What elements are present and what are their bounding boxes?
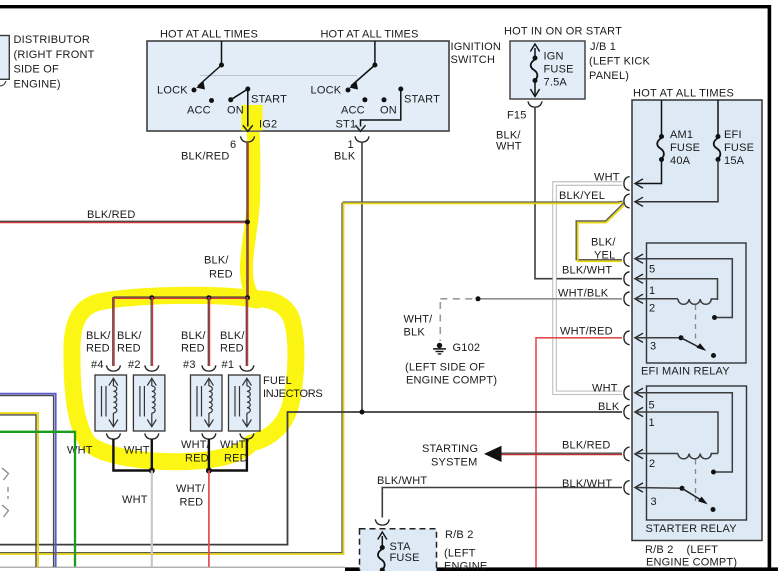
connector WHT (to AM1): [624, 177, 630, 191]
svg-text:J/B 1: J/B 1: [590, 41, 616, 53]
svg-text:ACC: ACC: [187, 105, 211, 117]
junction block (right, HOT AT ALL TIMES): [632, 100, 762, 541]
svg-text:WHT/BLK: WHT/BLK: [558, 288, 609, 300]
fuse box J/B 1: [510, 41, 585, 99]
svg-text:STARTER RELAY: STARTER RELAY: [646, 523, 738, 535]
svg-text:ON: ON: [227, 105, 244, 117]
svg-text:1: 1: [649, 417, 655, 429]
wire BLK/RED to starting system: [422, 440, 622, 469]
svg-text:WHT/: WHT/: [220, 439, 250, 451]
wire BLK/WHT to STA fuse: [377, 475, 622, 518]
junction WHT return: [149, 468, 155, 474]
svg-text:INJECTORS: INJECTORS: [263, 388, 322, 400]
svg-text:FUSE: FUSE: [724, 142, 754, 154]
svg-text:RED: RED: [185, 453, 209, 465]
svg-text:SIDE OF: SIDE OF: [14, 64, 59, 76]
edge continuation marks: [2, 468, 9, 517]
fuse EFI 15A: [635, 100, 754, 206]
connector BLK/WHT pin 5 EFI relay: [624, 272, 630, 286]
svg-text:WHT: WHT: [67, 445, 93, 457]
wire injector 4 return: [113, 439, 151, 471]
svg-text:6: 6: [230, 139, 236, 151]
svg-text:BLK: BLK: [404, 327, 426, 339]
svg-text:WHT/: WHT/: [404, 314, 434, 326]
relay EFI main: [635, 243, 746, 378]
fuel injector #3: [191, 365, 223, 439]
fuse IGN 7.5A: [530, 44, 573, 97]
svg-text:BLK/RED: BLK/RED: [181, 151, 229, 163]
svg-text:2: 2: [649, 303, 655, 315]
svg-text:BLK/: BLK/: [591, 237, 616, 249]
mechanical link line: [200, 75, 357, 77]
svg-text:WHT/RED: WHT/RED: [560, 326, 613, 338]
svg-text:AM1: AM1: [670, 129, 693, 141]
svg-text:HOT IN ON OR START: HOT IN ON OR START: [504, 26, 622, 38]
wire BLK/YEL jumper to EFI relay pin 5: [576, 203, 624, 261]
junction WHT/RED return: [206, 468, 212, 474]
svg-text:LOCK: LOCK: [311, 85, 342, 97]
svg-text:RED: RED: [86, 343, 110, 355]
svg-text:BLK/: BLK/: [204, 255, 229, 267]
svg-text:RED: RED: [180, 497, 204, 509]
wire BLK/RED drop injector 4: [113, 297, 114, 366]
svg-text:FUSE: FUSE: [544, 64, 574, 76]
svg-text:ENGINE: ENGINE: [444, 561, 487, 571]
svg-text:WHT/: WHT/: [176, 483, 206, 495]
svg-text:BLK/: BLK/: [117, 330, 142, 342]
svg-text:DISTRIBUTOR: DISTRIBUTOR: [14, 34, 91, 46]
svg-text:#3: #3: [183, 359, 196, 371]
svg-text:BLK/: BLK/: [181, 330, 206, 342]
wire WHT/RED down: [208, 471, 210, 567]
svg-text:3: 3: [651, 496, 657, 508]
svg-text:G102: G102: [453, 342, 481, 354]
wire injector 2 return: [151, 439, 153, 471]
wire BLK/RED drop injector 2: [151, 297, 152, 366]
svg-text:HOT AT ALL TIMES: HOT AT ALL TIMES: [321, 29, 419, 41]
svg-text:ENGINE COMPT): ENGINE COMPT): [406, 375, 497, 387]
connector F15: [528, 101, 542, 107]
svg-text:3: 3: [650, 341, 656, 353]
fuse box R/B 2 STA (dashed): [360, 529, 437, 571]
svg-text:BLK/WHT: BLK/WHT: [562, 265, 612, 277]
svg-text:(LEFT KICK: (LEFT KICK: [589, 56, 651, 68]
connector BLK/WHT pin 3 starter relay: [624, 481, 630, 495]
svg-text:BLK/: BLK/: [220, 330, 245, 342]
svg-text:ST1: ST1: [336, 119, 357, 131]
svg-text:BLK: BLK: [598, 401, 620, 413]
svg-text:FUSE: FUSE: [390, 552, 420, 564]
wire BLK/RED injector feed bus: [114, 295, 251, 300]
labels BLK/RED over injectors: [86, 330, 245, 371]
ground G102: [405, 342, 497, 387]
connector BLK/RED pin 2 starter relay: [624, 447, 630, 461]
svg-text:PANEL): PANEL): [589, 70, 629, 82]
svg-text:7.5A: 7.5A: [544, 77, 568, 89]
wire BLK/WHT from F15 to relay pin 5: [535, 107, 622, 279]
svg-text:BLK/: BLK/: [86, 330, 111, 342]
fuel injector #4: [95, 365, 127, 439]
labels under injectors: [67, 439, 250, 509]
svg-text:HOT AT ALL TIMES: HOT AT ALL TIMES: [633, 88, 734, 100]
wire BLK/YEL (left lower): [0, 413, 38, 567]
svg-text:(LEFT SIDE OF: (LEFT SIDE OF: [405, 362, 485, 374]
svg-text:FUSE: FUSE: [670, 142, 700, 154]
wire WHT from AM1 fuse to starter relay pin 5: [555, 184, 623, 393]
connector BLK/YEL (upper): [624, 194, 630, 208]
fuel injector #2: [133, 365, 165, 439]
svg-text:START: START: [251, 94, 287, 106]
fuel injector #1: [229, 365, 261, 439]
highlighter over IG2 arrow: [242, 105, 263, 132]
svg-text:F15: F15: [507, 110, 527, 122]
svg-text:IGNITION: IGNITION: [451, 41, 502, 53]
svg-text:RED: RED: [117, 343, 141, 355]
wire injector 3 return: [208, 439, 210, 471]
svg-text:WHT: WHT: [124, 445, 150, 457]
svg-text:(LEFT: (LEFT: [444, 548, 476, 560]
ignition switch left gang (IG2): [157, 41, 287, 131]
relay starter: [635, 386, 747, 535]
svg-text:ACC: ACC: [341, 105, 365, 117]
fuse AM1 40A: [635, 100, 700, 188]
svg-text:SYSTEM: SYSTEM: [431, 457, 477, 469]
svg-text:ENGINE COMPT): ENGINE COMPT): [646, 557, 737, 569]
svg-text:#4: #4: [91, 359, 104, 371]
wire BLK/RED drop injector 1: [246, 297, 247, 366]
svg-text:WHT: WHT: [122, 494, 148, 506]
svg-text:ON: ON: [380, 105, 397, 117]
svg-text:EFI: EFI: [724, 129, 742, 141]
wire BLK/RED drop injector 3: [208, 297, 209, 366]
svg-text:IG2: IG2: [259, 119, 277, 131]
svg-text:SWITCH: SWITCH: [451, 54, 496, 66]
connector WHT pin 5 starter relay: [624, 386, 630, 400]
wire BLK/RED from distributor side: [0, 209, 248, 223]
wire BLK to starter relay pin 1: [0, 401, 622, 545]
svg-text:IGN: IGN: [544, 51, 564, 63]
wire WHT/BLK to G102: [404, 296, 623, 341]
svg-text:5: 5: [649, 264, 655, 276]
svg-text:BLK/RED: BLK/RED: [87, 209, 135, 221]
svg-text:RED: RED: [181, 343, 205, 355]
svg-text:(RIGHT FRONT: (RIGHT FRONT: [14, 49, 95, 61]
svg-text:EFI MAIN RELAY: EFI MAIN RELAY: [641, 366, 730, 378]
connector BLK/YEL (lower): [624, 253, 630, 267]
svg-text:R/B 2 (LEFT: R/B 2 (LEFT: [645, 544, 718, 556]
svg-text:STARTING: STARTING: [422, 443, 478, 455]
svg-text:START: START: [404, 94, 440, 106]
distributor (right front side of engine): [0, 34, 95, 91]
wire BLK/RED IG2 vertical: [247, 142, 248, 298]
wire WHT/RED to EFI relay pin 3: [536, 338, 622, 568]
ignition switch box: [147, 41, 449, 131]
wire BLK/BLU (left): [0, 394, 56, 567]
svg-text:WHT: WHT: [592, 383, 618, 395]
highlighter annotation around fuel injectors: [72, 107, 296, 462]
svg-text:WHT: WHT: [496, 141, 522, 153]
svg-text:WHT/: WHT/: [181, 439, 211, 451]
wire GRN (left): [0, 432, 75, 567]
connector above STA fuse: [375, 519, 389, 525]
svg-text:RED: RED: [224, 453, 248, 465]
svg-text:R/B 2: R/B 2: [445, 529, 474, 541]
connector BLK pin 1 starter relay: [624, 405, 630, 419]
svg-text:WHT: WHT: [594, 172, 620, 184]
svg-text:1: 1: [348, 139, 354, 151]
svg-text:YEL: YEL: [594, 250, 615, 262]
svg-text:LOCK: LOCK: [157, 85, 188, 97]
svg-text:BLK: BLK: [334, 151, 356, 163]
wire injector 1 return: [209, 439, 247, 471]
svg-text:HOT AT ALL TIMES: HOT AT ALL TIMES: [160, 29, 258, 41]
page border frame: [0, 5, 771, 8]
svg-text:5: 5: [649, 400, 655, 412]
junction of BLK/RED wires: [245, 220, 250, 225]
svg-text:1: 1: [649, 285, 655, 297]
svg-text:RED: RED: [209, 269, 233, 281]
svg-text:RED: RED: [220, 343, 244, 355]
connector WHT/RED pin 3 EFI relay: [624, 331, 630, 345]
svg-text:15A: 15A: [724, 155, 745, 167]
wire BLK/YEL from EFI fuse: [0, 201, 623, 554]
wire BLK ST1 vertical: [361, 142, 363, 412]
svg-text:BLK/WHT: BLK/WHT: [377, 475, 427, 487]
svg-text:2: 2: [649, 458, 655, 470]
svg-text:BLK/WHT: BLK/WHT: [562, 478, 612, 490]
svg-text:FUEL: FUEL: [263, 375, 292, 387]
wire WHT down: [151, 471, 153, 567]
svg-text:#1: #1: [222, 359, 235, 371]
svg-text:BLK/RED: BLK/RED: [562, 440, 610, 452]
ignition switch right gang (ST1): [311, 41, 441, 131]
svg-text:BLK/YEL: BLK/YEL: [559, 190, 605, 202]
svg-text:#2: #2: [128, 359, 141, 371]
svg-text:40A: 40A: [670, 155, 691, 167]
svg-text:ENGINE): ENGINE): [14, 79, 61, 91]
connector WHT/BLK pin 1 EFI relay: [624, 292, 630, 306]
